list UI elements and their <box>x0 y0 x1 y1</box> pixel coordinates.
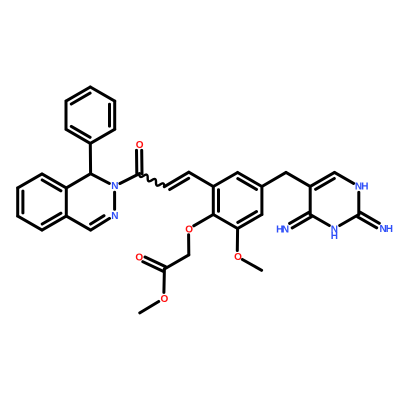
imine C4=NH <box>290 212 309 223</box>
svg-text:O: O <box>161 294 169 305</box>
svg-text:H: H <box>386 224 393 235</box>
bond CH2-C(=O) <box>164 255 188 269</box>
ester C=O <box>145 257 166 267</box>
bond ring-OMe O <box>236 229 239 251</box>
svg-text:N: N <box>282 224 289 235</box>
dihydropyridazine ring <box>66 174 90 188</box>
bond vinyl-ring <box>189 172 214 186</box>
bond O-CH3 methoxy <box>242 260 261 271</box>
benzo ring of phthalazine <box>42 174 66 188</box>
phenyl ring <box>90 87 114 101</box>
vinyl C=C <box>164 172 189 187</box>
bond N2-C(=O) <box>120 174 139 184</box>
svg-text:O: O <box>136 140 144 151</box>
svg-text:H: H <box>361 182 368 193</box>
svg-text:H: H <box>331 231 338 242</box>
bond C-O ester <box>162 269 166 292</box>
svg-text:N: N <box>111 181 118 192</box>
svg-text:O: O <box>234 252 242 263</box>
bond phenyl-C1 <box>89 143 92 173</box>
bond ring-O <box>194 215 214 226</box>
bond O-CH2 <box>187 235 190 255</box>
carbonyl C=O <box>140 150 143 173</box>
pyrimidine ring <box>310 172 334 186</box>
svg-text:O: O <box>185 224 193 235</box>
bond CH2-pyrimidine <box>286 172 310 186</box>
imine C2=NH <box>358 217 377 228</box>
svg-text:O: O <box>135 252 143 263</box>
svg-text:N: N <box>111 211 118 222</box>
bond ring-CH2 <box>262 172 286 186</box>
central benzene ring <box>238 173 262 187</box>
wavy bond <box>139 174 164 187</box>
bond O-CH3 <box>140 302 159 313</box>
